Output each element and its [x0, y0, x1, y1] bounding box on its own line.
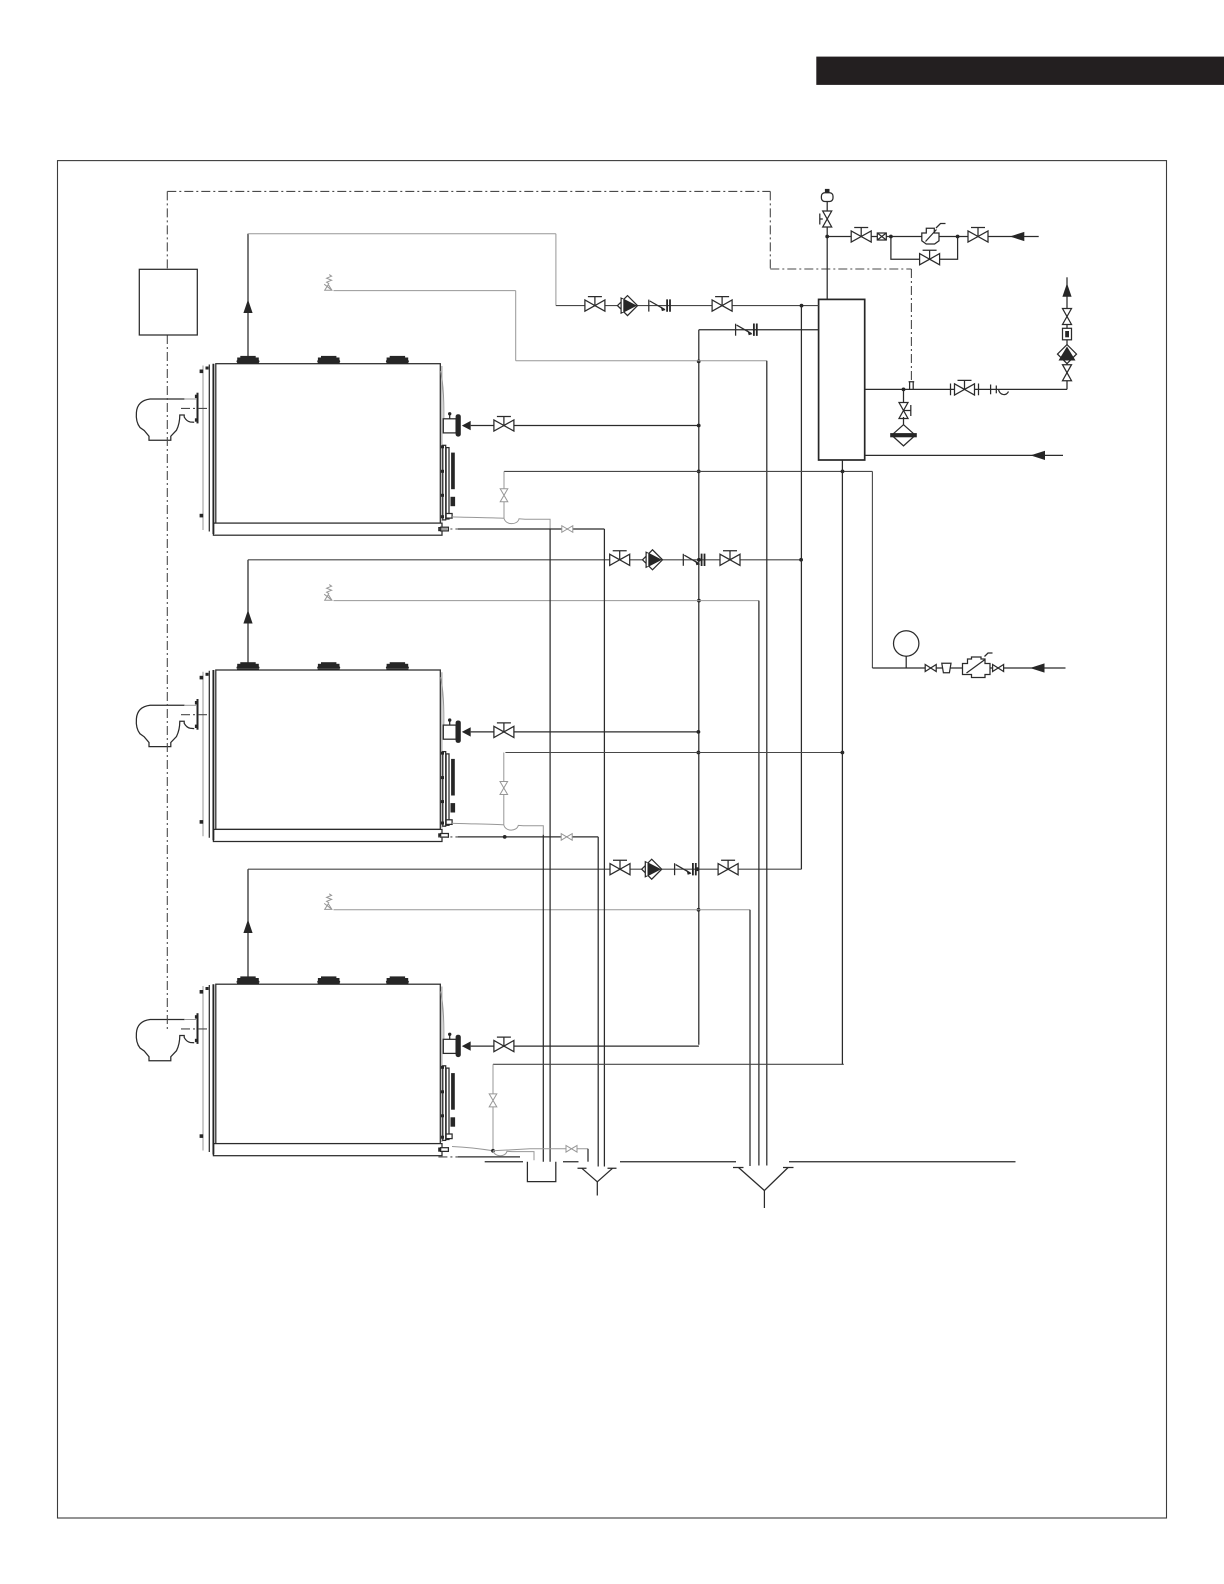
- B1 relief drop pipe: [766, 361, 768, 1166]
- B2 drain pipe: [438, 836, 458, 838]
- B2 return pipe: [471, 731, 699, 733]
- B3 return valve: [494, 1037, 514, 1052]
- gas manual valve 2: [968, 228, 988, 243]
- air separator funnel: [892, 425, 916, 446]
- vent flow arrow B3: [243, 920, 252, 934]
- gas train drop pipe: [826, 202, 828, 300]
- strainer: [942, 663, 951, 672]
- supply ball valve with unions: [955, 380, 975, 395]
- backflow preventer: [963, 657, 991, 678]
- gas flow switch: [877, 233, 886, 240]
- B2 supply valve: [610, 551, 630, 566]
- gas meter box: [139, 269, 197, 335]
- boiler 3 pump row pipe: [248, 868, 801, 870]
- B1 drain pipe: [438, 528, 458, 530]
- B1 supply valve: [585, 297, 605, 312]
- B1 drain header line: [504, 470, 872, 472]
- B3 trap feed drop: [492, 1064, 494, 1151]
- B3 circulator pump: [642, 859, 662, 879]
- sensor connection ticks: [909, 382, 915, 390]
- B2 drain valve: [561, 834, 572, 841]
- B2 row end junction: [799, 558, 803, 562]
- B2 condensate trap: [504, 825, 544, 835]
- gas branch dash-dot to train: [770, 191, 911, 269]
- B2 isolation valve: [720, 551, 740, 566]
- B2 check valve: [683, 554, 704, 566]
- boiler 1 pump row pipe: [556, 305, 819, 307]
- make-up valve 1: [925, 665, 936, 672]
- B3 drain line: [493, 1149, 588, 1151]
- boiler 3: [136, 976, 470, 1155]
- B2 return valve: [494, 723, 514, 738]
- header check valve: [736, 324, 757, 336]
- B2 relief valve: [324, 585, 332, 601]
- drain drop: [903, 389, 905, 403]
- B3 relief valve: [324, 894, 332, 910]
- B2 relief discharge: [334, 600, 759, 602]
- B3 relief drop pipe: [749, 910, 751, 1166]
- B3 condensate trap: [493, 1151, 534, 1160]
- flow indicator pump: [1058, 345, 1077, 364]
- union: [990, 385, 992, 395]
- B2 trap feed drop: [503, 753, 505, 825]
- gas pressure regulator: [922, 228, 939, 244]
- make-up flow arrow: [1030, 663, 1045, 672]
- header manifold: [819, 299, 865, 460]
- return flow arrow: [1031, 451, 1046, 460]
- system return inlet: [865, 454, 1063, 456]
- boiler 2 pump row pipe: [248, 559, 801, 561]
- blowdown collector riser: [841, 460, 843, 1064]
- make-up water line: [872, 667, 1065, 669]
- make-up water riser: [871, 471, 873, 668]
- riser junction: [800, 304, 804, 308]
- B3 return pipe: [471, 1045, 699, 1047]
- floor drain line: [485, 1161, 1016, 1163]
- gas sensing dash-dot drop: [910, 269, 912, 382]
- system supply outlet: [865, 388, 1067, 390]
- B1 check valve: [649, 299, 670, 311]
- drain valve: [899, 403, 908, 419]
- floor funnel 1: [582, 1168, 613, 1182]
- B3 relief discharge: [334, 909, 751, 911]
- boiler 2: [136, 662, 470, 841]
- B1 trap feed drop: [503, 471, 505, 518]
- B3 supply valve: [610, 860, 630, 875]
- return riser junctions: [697, 424, 701, 428]
- supply riser: [1066, 277, 1068, 389]
- make-up valve 2: [993, 665, 1004, 672]
- gas cock: [823, 211, 832, 227]
- B3 drain stub: [438, 1156, 458, 1158]
- B2 drain drop to funnel: [597, 837, 599, 1167]
- B1 return pipe: [471, 425, 699, 427]
- B2 drain header line: [505, 752, 842, 754]
- flow meter: [1063, 328, 1072, 340]
- B1 drain drop to funnel: [603, 529, 605, 1167]
- boiler 1 supply run: [248, 234, 556, 306]
- B2 condensate line from boiler: [452, 823, 504, 825]
- bypass valve: [920, 250, 940, 265]
- gas main dash-dot horizontal: [167, 190, 770, 192]
- return header riser: [698, 330, 700, 1045]
- boiler 3 vent riser: [247, 869, 249, 977]
- regulator bypass loop: [891, 237, 958, 260]
- B2 circulator pump: [643, 550, 663, 570]
- B1 relief valve: [324, 275, 332, 291]
- vent flow arrow B2: [243, 610, 252, 624]
- gas riser dash-dot left: [166, 191, 168, 1029]
- B1 blowdown drop: [549, 529, 551, 1162]
- B2 blowdown drop: [542, 835, 544, 1162]
- gas vent cap: [825, 189, 830, 193]
- boiler 1: [136, 356, 470, 535]
- title bar: [816, 57, 1224, 85]
- supply valve upper: [1063, 309, 1072, 325]
- B3 check valve: [675, 863, 696, 875]
- B3 drain header line: [493, 1063, 844, 1065]
- supply riser to manifold: [800, 306, 802, 870]
- floor trap cup: [527, 1162, 555, 1182]
- B2 relief drop pipe: [758, 601, 760, 1166]
- supply isolation valve: [1063, 365, 1072, 381]
- gas shutoff valve: [851, 228, 871, 243]
- boiler 2 vent riser: [247, 560, 249, 663]
- B1 isolation valve: [712, 297, 732, 312]
- gas supply flow arrow: [1010, 232, 1025, 241]
- B3 isolation valve: [718, 860, 738, 875]
- B1 circulator pump: [618, 296, 638, 316]
- vent flow arrow B1: [243, 300, 252, 314]
- B1 return valve: [494, 417, 514, 432]
- B3 condensate line from boiler: [452, 1147, 493, 1151]
- boiler 1 vent riser: [247, 234, 249, 357]
- B1 condensate line from boiler: [452, 517, 504, 518]
- manifold return check line: [699, 329, 819, 331]
- supply direction arrow: [1062, 283, 1071, 297]
- floor funnel 2: [739, 1168, 789, 1191]
- flex connector: [995, 386, 997, 394]
- pressure gauge: [905, 656, 907, 668]
- gas supply line: [827, 236, 1038, 238]
- B1 relief discharge: [334, 291, 767, 361]
- junction to drain: [902, 388, 906, 392]
- drawing border frame: [58, 161, 1167, 1518]
- B1 condensate trap: [504, 518, 550, 529]
- B1 drain valve: [562, 526, 573, 533]
